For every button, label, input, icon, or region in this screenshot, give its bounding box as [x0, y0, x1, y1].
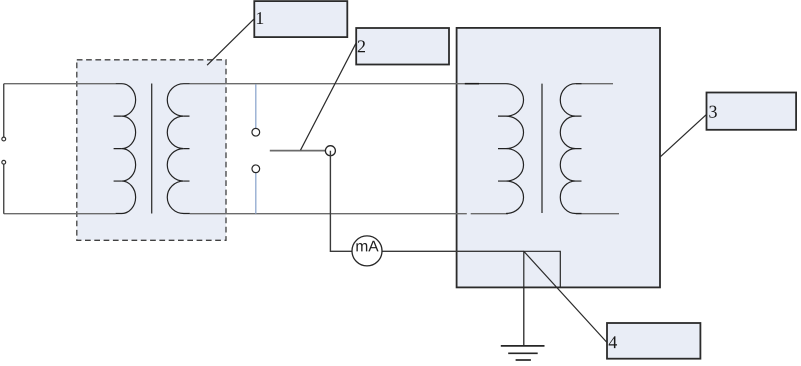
- switch pole circle: [325, 146, 335, 156]
- earth terminal notch on box 3: [524, 251, 561, 287]
- leader line 3: [660, 114, 706, 156]
- terminal upper-left: [2, 137, 6, 141]
- meter text mA: [356, 241, 378, 252]
- label box 3: [707, 93, 797, 130]
- dashed box around input transformer: [77, 60, 226, 241]
- blue stub lower: [255, 173, 257, 214]
- wire bottom: [4, 213, 619, 215]
- wire meter to box 3: [382, 250, 524, 252]
- transformer T1 core: [151, 84, 153, 214]
- ground lead: [523, 287, 525, 346]
- ground symbol: [501, 345, 545, 347]
- milliammeter mA: [352, 236, 382, 266]
- transformer T2 primary winding: [479, 84, 524, 214]
- terminal lower-left: [2, 160, 6, 164]
- transformer T1 primary winding: [116, 84, 136, 214]
- wire pole down to meter row: [330, 151, 352, 252]
- switch contact upper: [252, 128, 260, 136]
- box 3 (large unit enclosure): [457, 28, 660, 288]
- transformer T2 core: [541, 84, 543, 213]
- transformer T2 secondary winding: [560, 84, 581, 214]
- label text 2: [358, 40, 365, 52]
- label text 4: [609, 336, 617, 348]
- leader line 1: [207, 19, 254, 65]
- label text 1: [257, 12, 263, 24]
- label box 2: [356, 28, 449, 65]
- leader line 4: [524, 251, 607, 342]
- label text 3: [709, 106, 716, 118]
- wire left vertical: [3, 84, 5, 214]
- node dark segment on top wire: [465, 83, 479, 85]
- transformer T1 secondary winding: [167, 84, 190, 214]
- label box 4: [607, 323, 700, 359]
- switch contact lower: [252, 165, 260, 173]
- leader line 2: [301, 43, 357, 150]
- blue stub upper: [255, 84, 257, 128]
- wire top: [4, 83, 613, 85]
- switch arm: [270, 150, 326, 152]
- label box 1: [254, 1, 347, 37]
